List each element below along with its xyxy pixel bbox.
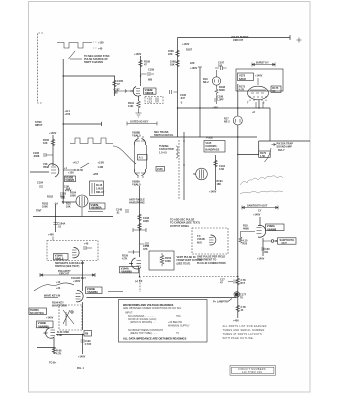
svg-text:½6AW8: ½6AW8: [267, 227, 277, 231]
tube V183A sawtooth out: [258, 225, 266, 237]
wire lamp stubs: [237, 84, 239, 137]
svg-text:NE-2: NE-2: [203, 81, 209, 84]
grid loop wire: [241, 232, 256, 238]
coil windings: [176, 146, 178, 158]
burst ky bracket: [252, 63, 275, 67]
tube V193A diode lower: [134, 169, 145, 176]
wire ellipse pins down: [256, 102, 263, 108]
resistor R196: [176, 50, 180, 57]
svg-text:SAWTOOTH OUT: SAWTOOTH OUT: [247, 205, 268, 208]
resistor R44: [236, 305, 240, 312]
tube label V187B box: [90, 203, 106, 209]
wire output bus y141: [259, 140, 310, 142]
svg-text:C189: C189: [148, 69, 155, 72]
box AR186: [138, 155, 148, 161]
wire to R179: [238, 141, 259, 155]
wire grid input: [30, 171, 49, 173]
svg-text:R20: R20: [243, 243, 248, 246]
wire blanker cathode: [139, 269, 141, 277]
label V185 chroma bandpass box: [204, 141, 225, 153]
svg-text:.001: .001: [264, 251, 269, 254]
wire bus to V192 stage: [63, 75, 115, 77]
resistor R18: [239, 237, 242, 243]
svg-text:180: 180: [114, 92, 119, 95]
svg-text:NO NOTICE: NO NOTICE: [30, 312, 44, 315]
tube label V193B lower box: [37, 321, 54, 328]
svg-text:¼6AL5: ¼6AL5: [132, 134, 141, 138]
dashed link wire: [143, 276, 238, 278]
wire right branch: [269, 108, 271, 141]
squiggle shield upper: [240, 176, 283, 185]
wire ne2 feed: [216, 70, 218, 104]
svg-text:CIRCUIT: CIRCUIT: [59, 273, 70, 276]
svg-text:TUBES AND SERIAL NUMBER: TUBES AND SERIAL NUMBER: [223, 329, 265, 332]
svg-text:BURST KY: BURST KY: [256, 62, 269, 65]
svg-text:TINT: TINT: [36, 210, 42, 213]
delay line DL18 box: [90, 181, 104, 196]
wire cathode down: [262, 238, 264, 256]
svg-text:1.5PF: 1.5PF: [217, 99, 224, 102]
svg-text:+40: +40: [84, 243, 89, 246]
dashed box cathode net: [145, 97, 163, 104]
wire plate bus y108: [178, 107, 271, 109]
svg-text:INPUT: INPUT: [35, 124, 43, 127]
svg-text:OUTPUT PANEL: OUTPUT PANEL: [170, 225, 190, 228]
svg-text:+100V: +100V: [134, 53, 142, 56]
svg-text:1K: 1K: [272, 90, 275, 93]
burst keyer outline box: [236, 69, 283, 91]
resistor R195: [176, 60, 180, 67]
svg-text:FIG. 1: FIG. 1: [77, 367, 85, 370]
wire sec right: [183, 132, 185, 200]
svg-text:WITH PAGE OUTLINE.: WITH PAGE OUTLINE.: [223, 337, 254, 340]
tube V18 sync amp: [48, 164, 59, 177]
wire stub y291: [108, 291, 123, 293]
circuit numbers box: [230, 366, 276, 376]
svg-text:½6AW8A: ½6AW8A: [38, 324, 49, 328]
svg-text:+140V: +140V: [255, 75, 263, 78]
box 2148: [156, 167, 165, 172]
svg-text:+140V: +140V: [78, 356, 86, 359]
svg-text:BANDPASS: BANDPASS: [205, 148, 219, 151]
sec trans boundary wire: [150, 136, 257, 138]
svg-text:1.5-4.5: 1.5-4.5: [159, 151, 167, 154]
svg-text:TO B+: TO B+: [49, 362, 57, 365]
svg-text:HAIRSPRING: HAIRSPRING: [129, 202, 145, 205]
svg-text:+24: +24: [56, 287, 61, 290]
svg-text:7B6: 7B6: [43, 166, 48, 169]
svg-text:TUBE: TUBE: [206, 137, 213, 140]
junction dots: [140, 75, 141, 76]
resistor R190: [139, 60, 143, 67]
svg-text:(+) 5.0: (+) 5.0: [135, 280, 143, 283]
tube V194A diode: [73, 247, 80, 257]
svg-text:47K: 47K: [143, 248, 148, 251]
resistor stack R168: [138, 214, 142, 221]
tube V164B diode: [210, 235, 216, 245]
svg-text:1.5K: 1.5K: [260, 155, 265, 158]
svg-text:100K: 100K: [165, 260, 171, 263]
svg-text:4.7K: 4.7K: [239, 89, 244, 92]
wire cathode down: [53, 338, 55, 354]
svg-text:P+ LAMP/TH: P+ LAMP/TH: [213, 301, 228, 304]
oscillator lamp V1: [233, 116, 242, 125]
squiggle shield lower: [240, 191, 283, 194]
svg-text:R18: R18: [60, 196, 65, 199]
wire killer to keyer: [82, 261, 84, 292]
tube V194B keyer: [76, 290, 83, 301]
svg-text:+140V: +140V: [209, 191, 217, 194]
svg-text:.047: .047: [180, 97, 185, 100]
dashed chassis bracket top-left: [38, 33, 44, 103]
tube V185 bandpass: [196, 168, 208, 180]
wire x200: [199, 67, 201, 137]
top bus wire: [178, 35, 291, 40]
tube V158A blanker: [129, 258, 141, 269]
svg-text:CY: CY: [258, 210, 262, 213]
waveform W2 (keying pulses): [70, 138, 113, 144]
svg-text:+100V: +100V: [190, 67, 198, 70]
resistor R175 box: [271, 86, 281, 92]
wire main bus y297: [87, 297, 237, 299]
box R8: [84, 331, 92, 337]
svg-text:+140V: +140V: [49, 132, 57, 135]
wire tube to bus: [81, 207, 83, 216]
switch contacts: [63, 310, 74, 326]
svg-text:+40: +40: [98, 48, 103, 51]
wire cathode bus: [82, 302, 84, 330]
svg-text:0.68: 0.68: [219, 168, 224, 171]
svg-text:½6DV8: ½6DV8: [145, 91, 154, 95]
svg-text:R-48 56: R-48 56: [74, 169, 84, 172]
capacitor C17 on bus: [228, 280, 236, 284]
svg-text:.01: .01: [116, 212, 120, 215]
svg-text:7U: 7U: [240, 297, 243, 300]
resistor R159: [160, 253, 164, 266]
svg-text:6U8: 6U8: [197, 241, 202, 244]
svg-text:+1.2: +1.2: [147, 101, 153, 104]
svg-text:OUT: OUT: [282, 242, 288, 245]
tube label V193B box: [65, 176, 76, 182]
svg-text:+40V: +40V: [48, 234, 54, 237]
svg-text:ARE OBTAINED UNDER CONDITIONS: ARE OBTAINED UNDER CONDITIONS OF NO SIG.: [123, 307, 182, 310]
capacitor C189: [141, 72, 155, 76]
tube label V194A box: [54, 254, 69, 260]
tube V192B keyer: [130, 87, 141, 97]
wire diode links: [135, 145, 147, 169]
tube V193B diode upper: [134, 139, 145, 146]
wire main left vertical: [62, 59, 64, 204]
wire grid to tube V187B: [63, 201, 77, 203]
svg-text:4.7UF: 4.7UF: [85, 343, 92, 346]
terminal circle out: [271, 240, 274, 243]
dashed box pulse per field: [192, 228, 228, 254]
wire down from plate: [82, 335, 84, 355]
svg-text:+105: +105: [98, 42, 104, 45]
svg-text:GATED 5G KEY: GATED 5G KEY: [130, 121, 149, 124]
resistor R185: [51, 139, 55, 146]
dashed drop wire: [139, 277, 141, 293]
svg-text:(WHAT IS SHOWN) ....: (WHAT IS SHOWN) ....: [130, 321, 156, 324]
wire plate out: [56, 334, 84, 336]
svg-text:½6AL5: ½6AL5: [55, 257, 64, 261]
junction: [139, 229, 140, 230]
arrow to pix module: [272, 143, 276, 145]
junction: [63, 123, 64, 124]
svg-text:7V: 7V: [176, 332, 179, 335]
tube label V172 box: [238, 73, 254, 81]
svg-text:2148: 2148: [157, 168, 163, 171]
svg-text:.01: .01: [58, 226, 62, 229]
wire burst feed vertical: [177, 38, 179, 138]
ground: [136, 109, 142, 117]
wire curve from sync stage: [113, 146, 136, 164]
wire from +140V: [52, 135, 54, 166]
tick node +1 +150: [63, 169, 74, 171]
wire y211: [88, 211, 103, 213]
tube label V164A box: [120, 267, 139, 273]
svg-text:TUBES AT PARTS LAYOUTS: TUBES AT PARTS LAYOUTS: [223, 333, 262, 336]
svg-text:+140V: +140V: [73, 280, 81, 283]
junction: [63, 75, 64, 76]
svg-text:.0068: .0068: [33, 155, 40, 158]
svg-text:PLUG-IN CONNECTORS: PLUG-IN CONNECTORS: [197, 262, 226, 265]
svg-text:10K: 10K: [66, 206, 71, 209]
svg-text:4.7K: 4.7K: [56, 353, 61, 356]
photo lamp junction: [235, 293, 239, 297]
wire grid drop: [55, 204, 57, 232]
plus mark: [297, 38, 302, 43]
svg-text:½6DV8: ½6DV8: [65, 178, 74, 182]
svg-text:160K: 160K: [70, 195, 76, 198]
tube label V192B box: [144, 88, 157, 94]
svg-text:10K: 10K: [43, 142, 48, 145]
notes box: [119, 300, 208, 343]
tube V193B triode bottom: [44, 328, 55, 338]
svg-text:ALL PARTS LIST FOR EARLIER: ALL PARTS LIST FOR EARLIER: [223, 325, 267, 328]
svg-text:+40V: +40V: [212, 107, 218, 110]
svg-text:V172: V172: [239, 73, 246, 77]
svg-text:+40V: +40V: [233, 320, 239, 323]
tube V187B chroma amp: [76, 195, 88, 207]
resistor R17: [236, 278, 240, 285]
svg-text:R182: R182: [47, 196, 54, 199]
wire cathode down: [258, 100, 260, 108]
svg-text:680K: 680K: [219, 89, 225, 92]
capacitor C186: [44, 153, 53, 157]
dashed box gun killer: [47, 241, 98, 261]
svg-text:110 THRU 199: 110 THRU 199: [242, 371, 262, 374]
wire sync input stub: [63, 122, 101, 126]
box lavrette out: [278, 238, 297, 244]
svg-text:680: 680: [148, 79, 153, 82]
svg-text:+140V: +140V: [46, 317, 54, 320]
capacitor C194: [214, 160, 218, 167]
svg-text:C184: C184: [37, 182, 44, 185]
svg-text:+150: +150: [65, 113, 71, 116]
waveform W1 (horiz sync pulses): [57, 43, 92, 49]
svg-text:(MEAS TOP TUBE) .......: (MEAS TOP TUBE) .......: [130, 332, 158, 335]
wire bus y215: [33, 216, 113, 218]
svg-text:A-1: A-1: [139, 157, 144, 160]
wire grid to tube: [115, 90, 134, 92]
svg-text:4.7K: 4.7K: [122, 258, 127, 261]
svg-text:1.0M: 1.0M: [98, 166, 104, 169]
neon bulb NE-2: [212, 77, 220, 85]
svg-text:18K: 18K: [217, 183, 222, 186]
svg-text:460K: 460K: [243, 228, 249, 231]
dashed box service switch: [59, 305, 82, 330]
center long wire: [237, 137, 239, 318]
svg-text:SWITCH (SEE TEXT): SWITCH (SEE TEXT): [55, 265, 79, 268]
tube label V183A box: [266, 224, 285, 231]
svg-text:+265: +265: [93, 173, 99, 176]
svg-text:DELAY: DELAY: [96, 191, 105, 194]
wire screen divider: [215, 155, 217, 190]
svg-text:½6AW8A: ½6AW8A: [91, 205, 102, 209]
svg-text:+140V: +140V: [182, 43, 190, 46]
svg-text:½6AW8A: ½6AW8A: [121, 270, 132, 274]
svg-text:DIA-7: DIA-7: [278, 149, 285, 152]
svg-text:R17: R17: [241, 282, 246, 285]
svg-text:SWITCH DETAIL: SWITCH DETAIL: [154, 134, 174, 137]
wire mixer vertical: [139, 186, 141, 257]
svg-text:ALL DATA IMPEDANCE ARE OBTAINE: ALL DATA IMPEDANCE ARE OBTAINED READINGS: [123, 336, 187, 340]
resistor R187: [113, 80, 117, 87]
terms notice box: [29, 308, 47, 315]
svg-text:NE-2: NE-2: [224, 121, 230, 124]
wire right curve: [265, 148, 272, 162]
resistor R191: [138, 96, 140, 101]
svg-text:3.3K: 3.3K: [128, 105, 133, 108]
resistor R-89: [52, 347, 56, 354]
svg-text:+41.7: +41.7: [73, 162, 80, 165]
wire key waveform curve: [34, 283, 74, 291]
svg-text:+2.8V: +2.8V: [98, 162, 105, 165]
svg-text:+14: +14: [56, 281, 61, 284]
svg-text:SWPT CHASSIS: SWPT CHASSIS: [84, 61, 103, 64]
svg-text:MINIMUM SUPPLY: MINIMUM SUPPLY: [168, 324, 190, 327]
svg-text:½6AW8A: ½6AW8A: [87, 290, 98, 294]
svg-text:WAVE KEY IN: WAVE KEY IN: [44, 295, 60, 298]
svg-text:-1A: -1A: [54, 203, 58, 206]
svg-text:100K: 100K: [42, 206, 48, 209]
leader arrow to sync note: [69, 51, 76, 59]
leader pointer: [81, 163, 90, 168]
wire osc top: [259, 217, 261, 226]
tube label V194B box: [86, 287, 103, 293]
svg-text:C183: C183: [60, 193, 67, 196]
resistor R179 box: [259, 151, 271, 157]
svg-text:CIRCUIT: CIRCUIT: [233, 39, 244, 42]
polarity circuit bracket: [40, 273, 95, 277]
transformer T193 dashed core: [178, 140, 180, 200]
svg-text:+140V: +140V: [257, 258, 265, 261]
wire left grid network: [114, 76, 116, 96]
wire agc line: [37, 347, 54, 349]
wire plate supply: [140, 56, 142, 86]
svg-text:18K: 18K: [170, 64, 175, 67]
svg-text:+140V: +140V: [253, 214, 261, 217]
svg-text:180K: 180K: [143, 220, 149, 223]
gate key bracket: [127, 122, 157, 126]
svg-text:6AU8: 6AU8: [239, 77, 246, 81]
svg-text:(SEE TEXT): (SEE TEXT): [177, 262, 191, 265]
svg-text:22K: 22K: [190, 62, 195, 65]
sawtooth out bracket: [242, 206, 278, 210]
svg-text:75Ω: 75Ω: [176, 315, 181, 318]
vert pulse network box: [149, 251, 174, 270]
capacitor in killer: [84, 246, 92, 250]
tube V172 envelope: [248, 86, 269, 100]
svg-text:22K: 22K: [168, 53, 173, 56]
svg-text:D187: D187: [186, 49, 193, 52]
